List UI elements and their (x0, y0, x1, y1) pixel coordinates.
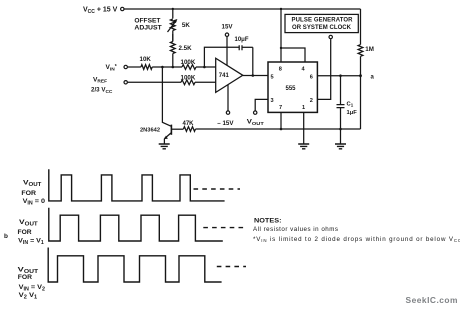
wire bottom horizontal (collector to right rail) (196, 128, 361, 130)
dashed continuation wave 1 (194, 188, 241, 190)
resistor 1M (358, 45, 363, 57)
pin 5 label (271, 75, 274, 81)
svg-text:FOR: FOR (21, 190, 36, 197)
label 1uF (347, 110, 358, 116)
wire pulse generator to 555 pin 2 (317, 39, 330, 99)
label VOUT (247, 119, 264, 127)
svg-text:VIN*: VIN* (106, 64, 117, 73)
svg-text:100K: 100K (181, 75, 196, 82)
junction pin6 line / C1 (339, 74, 342, 77)
wire 555 pin 6 to node a (317, 75, 360, 77)
svg-text:741: 741 (219, 73, 230, 79)
junction op-amp output / feedback (252, 74, 255, 77)
svg-text:VOUT: VOUT (23, 180, 41, 189)
pin 2 label (310, 98, 313, 104)
label Vout for Vin = V2 (18, 267, 46, 301)
svg-text:2: 2 (310, 98, 313, 104)
label b (4, 233, 8, 240)
svg-text:3: 3 (271, 98, 274, 104)
wire bracket pin 8 to pin 4 (281, 48, 305, 62)
ground pin 1 (298, 144, 309, 149)
svg-text:VREF: VREF (93, 76, 107, 84)
label VCC + 15 V (83, 6, 118, 15)
label 2/3 VCC (91, 87, 113, 95)
label 100K lower (181, 75, 196, 82)
watermark SeekIC.com (406, 295, 458, 305)
label 2.5K (179, 45, 193, 52)
resistor 2.5K (170, 42, 175, 54)
svg-text:2.5K: 2.5K (179, 45, 193, 52)
wire 100K to op-amp non-inverting input (195, 81, 216, 83)
svg-text:All resistor values in ohms: All resistor values in ohms (253, 226, 338, 233)
resistor 100K (lower) (181, 80, 195, 85)
wire op-amp output to 555 pin 5 (243, 75, 268, 77)
label Vout for Vin = V1 (18, 219, 45, 246)
svg-text:8: 8 (279, 66, 282, 72)
label C1 (347, 101, 354, 107)
svg-text:ADJUST: ADJUST (134, 25, 162, 32)
wire output up to feedback (252, 47, 254, 75)
node VOUT terminal (254, 111, 257, 114)
wire C1 bottom lead to ground (340, 108, 342, 144)
pin 7 label (279, 105, 282, 111)
node VREF terminal (124, 81, 127, 84)
resistor 10K (141, 65, 152, 70)
wire 555 pin 1 down to ground (303, 112, 305, 144)
svg-text:555: 555 (286, 86, 297, 92)
junction VIN node / 2.5K branch (172, 66, 175, 69)
ground transistor emitter (159, 144, 170, 149)
svg-text:VIN = V1: VIN = V1 (18, 238, 44, 247)
label -15V (217, 120, 234, 127)
label VREF (93, 76, 107, 84)
junction rail/555 pin8 branch (280, 8, 282, 10)
svg-text:47K: 47K (183, 121, 195, 127)
svg-text:7: 7 (279, 105, 282, 111)
node -15V supply terminal (226, 111, 229, 114)
resistor 47K (183, 127, 195, 132)
junction pin8 / pin4 bracket (280, 47, 282, 49)
junction pin 7 / bottom wire (280, 128, 283, 131)
wire 555 pin 3 to VOUT (255, 99, 268, 110)
pin 4 label (302, 66, 306, 72)
label 2N3642 (140, 128, 160, 134)
wire 100K to op-amp inverting input (196, 66, 216, 68)
capacitor C1 1uF (337, 105, 345, 108)
svg-text:1M: 1M (365, 46, 374, 53)
label OFFSET ADJUST (134, 17, 162, 31)
svg-text:4: 4 (302, 66, 306, 72)
waveform Vout for Vin=0 (49, 169, 225, 201)
wire pot to 2.5K (172, 34, 174, 42)
capacitor 10uF feedback (239, 45, 242, 50)
svg-text:VCC + 15 V: VCC + 15 V (83, 6, 118, 15)
wire rail to pot (172, 9, 174, 19)
wire +15V to op-amp (226, 37, 228, 66)
pin 1 label (302, 105, 305, 111)
junction rail/offset branch (172, 8, 174, 10)
note 1 all resistor values in ohms (253, 226, 338, 233)
label 100K upper (181, 59, 196, 66)
note 2 Vin limited (253, 236, 460, 243)
IC 555 timer (268, 62, 317, 112)
op-amp U1 741 (216, 58, 243, 92)
junction VIN node / transistor base branch (161, 66, 164, 69)
node pulse generator output terminal (329, 35, 332, 38)
wire 1M to node a (360, 56, 362, 75)
svg-text:100K: 100K (181, 59, 196, 66)
wire VCC rail down to pin 8 (280, 9, 282, 62)
wire node a down to bottom wire (360, 76, 362, 129)
waveform Vout for Vin=V2 (48, 248, 221, 283)
svg-text:a: a (371, 75, 375, 81)
svg-text:VOUT: VOUT (19, 219, 38, 228)
label 10K (140, 56, 152, 63)
label 1M (365, 46, 374, 53)
svg-text:*VIN is limited to 2 diode dro: *VIN is limited to 2 diode drops within … (253, 236, 460, 243)
svg-text:– 15V: – 15V (217, 120, 234, 127)
svg-text:b: b (4, 233, 8, 240)
wire rail right corner down (360, 9, 362, 45)
svg-text:OR SYSTEM CLOCK: OR SYSTEM CLOCK (292, 25, 352, 31)
svg-text:V2 V1: V2 V1 (19, 292, 38, 301)
label 10uF (235, 37, 249, 43)
junction node a (359, 74, 362, 77)
node +15V supply terminal (225, 33, 228, 36)
potentiometer 5K offset adjust (168, 19, 178, 42)
svg-text:10μF: 10μF (235, 37, 249, 43)
wire 10K to 100K (inverting input line) (152, 66, 182, 68)
svg-text:5K: 5K (182, 22, 190, 29)
pin 3 label (271, 98, 274, 104)
svg-text:10K: 10K (140, 56, 152, 63)
wire VREF to 100K (128, 81, 181, 83)
pin 6 label (310, 75, 313, 81)
wire C1 top lead (340, 76, 342, 105)
svg-text:OFFSET: OFFSET (134, 17, 160, 24)
svg-text:1: 1 (302, 105, 305, 111)
block pulse generator (285, 14, 358, 32)
svg-text:2/3 VCC: 2/3 VCC (91, 87, 113, 95)
resistor 100K (upper) (182, 65, 196, 70)
wire feedback top right segment (242, 46, 253, 48)
svg-text:VIN = 0: VIN = 0 (23, 198, 46, 207)
svg-text:NOTES:: NOTES: (254, 219, 282, 225)
svg-text:SeekIC.com: SeekIC.com (406, 295, 458, 305)
wire op-amp to -15V (227, 85, 229, 111)
svg-text:VOUT: VOUT (247, 119, 264, 127)
wire VIN to 10K (128, 66, 141, 68)
label 15V (222, 24, 234, 31)
svg-text:PULSE GENERATOR: PULSE GENERATOR (292, 18, 354, 24)
svg-text:5: 5 (271, 75, 274, 81)
node VIN* input terminal (124, 65, 127, 68)
wire 555 pin 7 down (280, 112, 282, 129)
svg-text:6: 6 (310, 75, 313, 81)
wire 2.5K to VIN line (172, 54, 174, 68)
svg-text:1μF: 1μF (347, 110, 358, 116)
svg-text:2N3642: 2N3642 (140, 128, 160, 134)
junction C1 lead / bottom wire (339, 128, 342, 131)
svg-text:C1: C1 (347, 101, 354, 107)
ground C1 (335, 144, 346, 149)
waveform Vout for Vin=V1 (49, 208, 223, 241)
pin 8 label (279, 66, 282, 72)
label 5K (182, 22, 190, 29)
dashed continuation wave 3 (217, 266, 246, 268)
label VIN* (106, 64, 117, 73)
transistor Q1 2N3642 (164, 125, 183, 144)
svg-text:15V: 15V (222, 24, 234, 31)
notes heading (254, 219, 282, 225)
label Vout for Vin = 0 (21, 180, 45, 207)
svg-text:FOR: FOR (18, 274, 32, 281)
label 47K (183, 121, 195, 127)
wire VIN node down to transistor base (162, 67, 171, 126)
svg-text:FOR: FOR (18, 229, 32, 236)
junction feedback / inverting input (203, 66, 206, 69)
wire VCC top rail (124, 8, 360, 10)
wire feedback top left segment (204, 47, 239, 67)
label a (371, 75, 375, 81)
node VCC +15V terminal (121, 7, 124, 10)
dashed continuation wave 2 (203, 227, 246, 229)
